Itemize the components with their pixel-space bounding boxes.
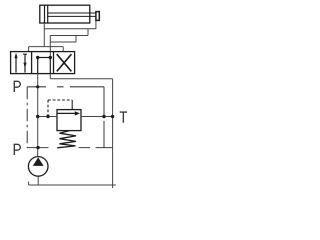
wire staircase V at x76 [75,36,77,43]
node P crossing enclosure top [36,85,39,88]
wire A-line vertical into valve [49,36,51,58]
wire staircase H3 [50,41,76,43]
wire staircase V at x88 [87,29,89,36]
wire T port down from valve [49,74,51,79]
directional valve V1 divider 1 [31,52,33,74]
enclosure right chain line [103,87,105,148]
node outlet crossing enclosure [102,115,105,118]
wire stub into valve left [28,47,30,52]
cylinder C1 rod end cap [96,12,99,21]
pilot line dashed horizontal [48,99,72,101]
node middle square right [49,56,52,59]
pilot line dashed vertical [47,100,49,117]
wire staircase H2 [50,35,88,37]
pump P1 circle [28,157,48,177]
directional valve V1 outline [11,52,75,74]
relief valve RV1 body [57,110,81,131]
wire tank line vertical right side [112,79,114,188]
wire cap-end vertical from cylinder [43,23,45,47]
wire pump suction vertical [37,176,39,185]
valve V1 middle square link bar [38,57,51,59]
enclosure top chain line [27,86,104,88]
cylinder C1 rod [48,13,96,16]
relief valve RV1 spring [57,131,76,148]
wire relief inlet [38,116,57,118]
cylinder C1 body [40,5,90,23]
label P top [14,81,20,92]
valve V1 left square down-arrow [24,54,26,72]
wire staircase H1 [44,28,96,30]
cylinder C1 piston [45,5,48,23]
node middle square left [36,56,39,59]
wire bottom-left tick [28,182,30,186]
node pump pressure junction [36,146,39,149]
valve V1 right square crossed arrows [57,54,72,71]
directional valve V1 divider 2 [53,52,55,74]
relief valve RV1 internal arrow [57,112,75,114]
valve V1 middle square right vertical [49,58,51,74]
pump P1 flow triangle [33,157,44,166]
label T [120,112,127,123]
enclosure bottom chain line [79,147,113,149]
enclosure left chain line [26,87,28,148]
node pilot tee junction [46,115,49,118]
wire pressure line P bottom [27,147,49,149]
wire cross horizontal above valve [29,46,64,48]
wire stub into valve right square [62,47,64,52]
pilot line drop into valve top [71,100,73,110]
valve V1 left square up-arrow [15,58,17,73]
node outlet tank junction [111,115,114,118]
label P bottom [14,144,20,155]
valve V1 middle square left vertical [37,58,39,74]
wire T horizontal to tank line [50,78,112,80]
node relief inlet junction [36,115,39,118]
wire P port down from valve [37,74,39,157]
wire bottom return line [29,184,116,186]
wire rod-end vertical drop [95,21,97,29]
wire relief outlet to tank line [81,116,113,118]
